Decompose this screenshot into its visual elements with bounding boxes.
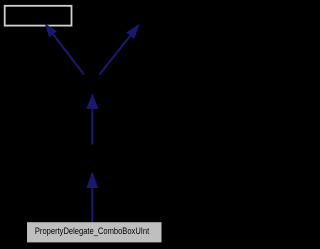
vertical inheritance arrow (upper): shaft <box>91 109 93 145</box>
inheritance arrow to top-right (off-box): head <box>126 24 139 39</box>
inheritance arrow to top-left box: shaft <box>53 34 84 74</box>
node: top-left base class box (empty outline) <box>5 6 72 26</box>
vertical inheritance arrow (upper): head <box>86 93 98 109</box>
inheritance arrow to top-left box: head <box>45 23 57 37</box>
vertical inheritance arrow (lower): head <box>86 171 98 188</box>
svg-text:PropertyDelegate_ComboBoxUInt: PropertyDelegate_ComboBoxUInt <box>35 226 150 237</box>
vertical inheritance arrow (lower): shaft <box>91 188 93 222</box>
inheritance arrow to top-right (off-box): shaft <box>100 36 131 75</box>
node: PropertyDelegate_ComboBoxUInt (current class, grey filled) <box>27 222 162 242</box>
